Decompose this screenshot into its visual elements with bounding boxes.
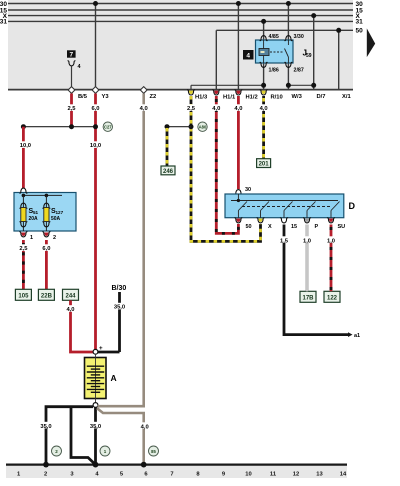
- svg-text:127: 127: [56, 210, 64, 215]
- svg-text:2,5: 2,5: [67, 106, 76, 112]
- svg-text:31: 31: [356, 19, 364, 26]
- svg-text:31: 31: [0, 19, 7, 26]
- svg-text:201: 201: [259, 162, 270, 168]
- svg-text:244: 244: [65, 293, 76, 299]
- svg-text:2: 2: [44, 471, 47, 477]
- svg-text:122: 122: [327, 295, 338, 301]
- svg-text:2,5: 2,5: [187, 106, 196, 112]
- svg-text:7: 7: [69, 51, 73, 58]
- svg-text:2/87: 2/87: [294, 68, 304, 74]
- svg-text:11: 11: [270, 471, 277, 477]
- svg-text:H1/2: H1/2: [246, 95, 258, 101]
- svg-text:10,0: 10,0: [20, 143, 31, 149]
- svg-text:15: 15: [291, 224, 297, 230]
- svg-text:1,0: 1,0: [303, 239, 311, 245]
- svg-text:105: 105: [18, 293, 29, 299]
- svg-text:50: 50: [356, 28, 364, 35]
- svg-text:X/1: X/1: [342, 94, 351, 100]
- svg-text:Z2: Z2: [150, 94, 157, 100]
- svg-text:51: 51: [33, 210, 39, 215]
- svg-text:D: D: [349, 201, 356, 211]
- svg-text:C27: C27: [104, 125, 112, 130]
- svg-text:14: 14: [340, 471, 347, 477]
- svg-text:4,0: 4,0: [260, 106, 268, 112]
- svg-text:4,0: 4,0: [234, 106, 242, 112]
- svg-text:4,0: 4,0: [212, 106, 220, 112]
- svg-text:7: 7: [170, 471, 173, 477]
- svg-text:X: X: [268, 224, 272, 230]
- svg-text:30: 30: [245, 187, 251, 193]
- svg-text:4: 4: [246, 53, 250, 60]
- svg-text:P: P: [315, 224, 319, 230]
- svg-text:35,0: 35,0: [40, 424, 51, 430]
- svg-text:SU: SU: [338, 224, 346, 230]
- svg-text:10,0: 10,0: [90, 143, 101, 149]
- svg-text:35,0: 35,0: [114, 305, 125, 311]
- svg-text:Y3: Y3: [102, 94, 110, 100]
- svg-text:H1/1: H1/1: [223, 95, 236, 101]
- svg-text:+: +: [99, 345, 103, 352]
- svg-text:2: 2: [53, 235, 56, 241]
- svg-text:H1/3: H1/3: [195, 95, 208, 101]
- svg-text:4,0: 4,0: [66, 307, 74, 313]
- svg-text:B/5: B/5: [78, 94, 88, 100]
- svg-text:3/30: 3/30: [294, 34, 304, 40]
- svg-text:6,0: 6,0: [91, 106, 99, 112]
- svg-text:a1: a1: [354, 333, 360, 339]
- svg-text:2,5: 2,5: [19, 246, 28, 252]
- svg-text:A80: A80: [199, 125, 207, 130]
- svg-text:17B: 17B: [302, 295, 314, 301]
- svg-text:4,0: 4,0: [141, 425, 149, 431]
- svg-text:13: 13: [316, 471, 323, 477]
- svg-text:1/86: 1/86: [269, 68, 279, 74]
- svg-text:50A: 50A: [51, 216, 61, 222]
- svg-text:4,0: 4,0: [140, 106, 148, 112]
- svg-text:35,0: 35,0: [90, 424, 101, 430]
- svg-text:R/10: R/10: [271, 95, 283, 101]
- svg-text:6,0: 6,0: [42, 246, 50, 252]
- svg-text:12: 12: [293, 471, 299, 477]
- svg-text:B/30: B/30: [112, 285, 127, 292]
- svg-text:A: A: [111, 373, 117, 383]
- svg-text:W/3: W/3: [292, 94, 303, 100]
- svg-text:1,5: 1,5: [280, 239, 289, 245]
- svg-text:59: 59: [306, 53, 312, 59]
- svg-text:D/7: D/7: [317, 94, 326, 100]
- svg-text:10: 10: [245, 471, 251, 477]
- svg-text:20A: 20A: [29, 216, 39, 222]
- svg-text:50: 50: [246, 224, 252, 230]
- svg-text:1: 1: [30, 235, 33, 241]
- svg-text:4/85: 4/85: [269, 34, 279, 40]
- svg-text:1,0: 1,0: [327, 239, 335, 245]
- svg-text:246: 246: [163, 169, 174, 175]
- svg-text:85: 85: [151, 449, 156, 454]
- svg-text:22B: 22B: [41, 293, 53, 299]
